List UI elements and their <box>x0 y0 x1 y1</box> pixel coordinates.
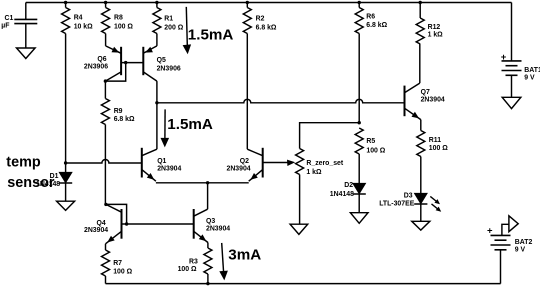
resistor R7 <box>102 250 133 276</box>
svg-text:R4: R4 <box>74 15 83 22</box>
ground (below BAT1) <box>502 97 521 108</box>
node emitter junction <box>206 181 209 184</box>
wire bottom rail <box>106 283 501 285</box>
svg-text:R_zero_set: R_zero_set <box>306 160 343 167</box>
svg-text:2N3906: 2N3906 <box>84 63 108 70</box>
label temp sensor <box>6 154 55 191</box>
wire Q4 emitter to R7 <box>105 244 107 250</box>
ground (below D1) <box>57 201 75 210</box>
svg-text:R2: R2 <box>256 16 265 23</box>
svg-text:100 Ω: 100 Ω <box>429 145 448 152</box>
diode D1 <box>36 172 72 188</box>
transistor Q6 <box>84 46 121 81</box>
wire shared emitters Q1-Q2 <box>156 182 249 184</box>
wire Q6 collector to R9 <box>104 81 106 98</box>
label 1.5mA (middle) <box>167 116 213 133</box>
wire R6 to node B <box>358 34 360 123</box>
svg-text:100 Ω: 100 Ω <box>113 268 132 275</box>
current arrow 1.5mA (top) <box>183 7 192 54</box>
node B (R6/R5 junction) <box>358 121 361 124</box>
ground (below D2) <box>350 213 368 224</box>
svg-text:2N3904: 2N3904 <box>84 227 108 234</box>
wire R7 to bottom rail <box>105 276 107 284</box>
svg-text:BAT1: BAT1 <box>524 67 540 74</box>
svg-text:Q3: Q3 <box>206 218 215 225</box>
wire R1 to Q5 emitter <box>156 34 158 46</box>
svg-text:9 V: 9 V <box>515 247 526 254</box>
node R3 bottom <box>206 282 209 285</box>
current arrow 3mA <box>219 243 228 281</box>
wire R_zero_set to ground <box>299 175 301 225</box>
svg-text:Q1: Q1 <box>157 158 166 165</box>
svg-text:D2: D2 <box>344 182 353 189</box>
wire Q4 base-collector tie <box>106 204 127 224</box>
svg-text:2N3906: 2N3906 <box>157 66 181 73</box>
svg-text:+: + <box>501 52 507 63</box>
label 3mA <box>228 247 261 264</box>
svg-text:R6: R6 <box>366 13 375 20</box>
ground (below C1) <box>17 48 36 59</box>
wire R9 to Q4 collector <box>104 125 106 205</box>
svg-text:1 kΩ: 1 kΩ <box>306 169 322 176</box>
svg-text:R9: R9 <box>114 108 123 115</box>
resistor R8 <box>102 1 134 34</box>
svg-text:R7: R7 <box>113 260 122 267</box>
svg-text:D3: D3 <box>404 192 413 199</box>
svg-text:9 V: 9 V <box>524 75 535 82</box>
svg-text:+: + <box>487 225 493 236</box>
resistor R6 <box>355 1 387 34</box>
resistor R4 <box>62 1 94 34</box>
svg-text:R8: R8 <box>114 15 123 22</box>
pot wiper arrow <box>287 160 295 166</box>
svg-text:6.8 kΩ: 6.8 kΩ <box>256 25 277 32</box>
svg-text:1 µF: 1 µF <box>0 23 9 30</box>
svg-text:100 Ω: 100 Ω <box>366 148 385 155</box>
svg-text:2N3904: 2N3904 <box>157 166 181 173</box>
node A (Q5/Q1 collectors) <box>155 101 158 104</box>
transistor Q2 <box>227 148 263 181</box>
wire emitter node to Q3 collector <box>207 183 209 209</box>
svg-text:Q2: Q2 <box>240 158 249 165</box>
wire Q3 emitter to R3 <box>207 243 209 249</box>
potentiometer R_zero_set <box>296 149 344 176</box>
wire D1 to ground <box>65 183 67 201</box>
svg-text:10 kΩ: 10 kΩ <box>74 23 93 30</box>
svg-text:Q6: Q6 <box>97 56 106 63</box>
wire temp-sensor node to Q1 base (hop over R9 wire) <box>66 160 142 164</box>
wire Q6 base to Q5 base <box>121 62 143 64</box>
node Q4 base tie <box>125 222 128 225</box>
svg-text:100 Ω: 100 Ω <box>178 266 197 273</box>
svg-text:1.5mA: 1.5mA <box>188 27 234 44</box>
svg-text:100 Ω: 100 Ω <box>114 23 133 30</box>
transistor Q7 <box>405 83 445 120</box>
LED D3 <box>379 192 441 211</box>
transistor Q4 <box>84 204 122 243</box>
off-page connector flag (BAT2 +) <box>509 216 518 232</box>
ground (below R_zero_set) <box>290 224 308 234</box>
svg-text:temp: temp <box>6 154 41 170</box>
wire R8 to Q6 emitter <box>105 34 107 46</box>
diode D2 <box>330 182 366 198</box>
wire Q4 base to Q3 base <box>122 223 194 225</box>
svg-text:2N3904: 2N3904 <box>206 225 230 232</box>
svg-text:R3: R3 <box>189 258 198 265</box>
ground (below D3) <box>412 221 430 230</box>
wire node B to R_zero_set <box>300 123 360 149</box>
resistor R3 <box>178 248 212 274</box>
svg-text:C1: C1 <box>5 15 14 22</box>
battery BAT2 <box>487 224 532 283</box>
wire R4 to temp-sensor node <box>65 34 67 164</box>
wire R3 to bottom rail <box>207 274 209 284</box>
svg-text:BAT2: BAT2 <box>515 239 533 246</box>
battery BAT1 <box>501 3 540 98</box>
wire node to D1 <box>65 163 67 172</box>
svg-text:6.8 kΩ: 6.8 kΩ <box>114 116 135 123</box>
svg-text:Q7: Q7 <box>421 89 430 96</box>
resistor R1 <box>153 1 184 34</box>
transistor Q3 <box>194 209 231 243</box>
svg-text:6.8 kΩ: 6.8 kΩ <box>366 22 387 29</box>
wire Q2 base to pot wiper <box>263 162 289 164</box>
wire R5 to D2 <box>358 154 360 183</box>
wire Q7 emitter to R11 <box>420 120 422 131</box>
svg-text:R5: R5 <box>366 138 375 145</box>
node Q4 collector <box>104 203 107 206</box>
wire D2 to ground <box>358 194 360 213</box>
transistor Q5 <box>143 46 181 81</box>
svg-text:R11: R11 <box>429 137 441 144</box>
svg-text:1 kΩ: 1 kΩ <box>428 32 444 39</box>
wire node A to Q7 base (with hops over R2, R6) <box>157 99 405 102</box>
svg-text:R12: R12 <box>428 24 441 31</box>
resistor R12 <box>416 1 443 44</box>
node temp-sensor (R4/D1/Q1 base) <box>64 161 67 164</box>
resistor R9 <box>101 99 135 125</box>
wire Q6 base-collector tie <box>105 63 125 82</box>
svg-text:2N3904: 2N3904 <box>421 97 445 104</box>
node Q6 collector <box>104 79 107 82</box>
svg-text:Q4: Q4 <box>97 220 106 227</box>
current arrow 1.5mA (middle) <box>161 109 170 147</box>
svg-text:1.5mA: 1.5mA <box>167 116 213 133</box>
wire D3 to ground <box>420 204 422 222</box>
wire R12 to Q7 collector <box>419 44 421 83</box>
svg-text:200 Ω: 200 Ω <box>164 25 183 32</box>
capacitor C1 <box>0 3 37 49</box>
wire node A to Q1 collector <box>156 103 158 149</box>
wire R11 to D3 <box>420 157 422 194</box>
resistor R2 <box>243 1 277 34</box>
transistor Q1 <box>142 148 182 181</box>
wire Q5 collector to node A <box>156 81 158 103</box>
svg-text:2N3904: 2N3904 <box>227 166 251 173</box>
resistor R11 <box>417 131 448 157</box>
label 1.5mA (top) <box>188 27 234 44</box>
svg-text:1N4148: 1N4148 <box>330 191 354 198</box>
svg-text:Q5: Q5 <box>157 57 166 64</box>
resistor R5 <box>355 128 386 155</box>
node Q6 base tie <box>124 61 127 64</box>
svg-text:R1: R1 <box>164 16 173 23</box>
svg-text:3mA: 3mA <box>228 247 261 264</box>
wire R2 to Q2 collector <box>246 34 248 150</box>
svg-text:sensor: sensor <box>7 175 55 191</box>
wire top supply rail <box>26 2 512 4</box>
svg-text:LTL-307EE: LTL-307EE <box>379 201 415 208</box>
